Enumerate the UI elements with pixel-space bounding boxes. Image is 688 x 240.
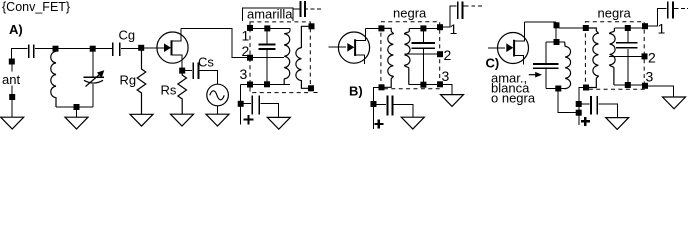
- svg-text:o negra: o negra: [491, 91, 536, 106]
- ground oscillator: [206, 114, 229, 126]
- svg-text:2: 2: [648, 50, 656, 66]
- svg-text:{Conv_FET}: {Conv_FET}: [2, 0, 70, 14]
- capacitor supply bypass A: [300, 1, 305, 17]
- wire Q3 drain to T3: [525, 22, 583, 28]
- wire C tank top rail: [546, 41, 565, 43]
- wire T2 pin2 tap: [405, 53, 438, 55]
- svg-text:A): A): [9, 22, 23, 37]
- wire T3 secondary top rail: [614, 27, 642, 29]
- svg-text:Cs: Cs: [198, 55, 214, 70]
- node T3 pin1: [642, 23, 648, 29]
- node gate junction: [138, 45, 144, 51]
- wire T3 pin1 to supply: [648, 8, 667, 26]
- capacitor T3 tuning: [616, 31, 637, 83]
- node source junction: [179, 68, 185, 74]
- inductor L1 (antenna tank coil): [51, 51, 56, 107]
- node T2 cap top junction: [420, 25, 426, 31]
- ground T3 pin3: [663, 97, 686, 109]
- capacitor supply bypass C: [668, 2, 673, 19]
- capacitor Cg: [113, 42, 139, 56]
- node T2 cap bottom junction: [420, 82, 426, 88]
- wire T1 bottom rail: [241, 83, 291, 85]
- node C electrolytic junction lower: [576, 110, 582, 116]
- transformer T3 shield box (dashed): [585, 22, 644, 89]
- svg-text:negra: negra: [393, 6, 427, 21]
- svg-text:3: 3: [442, 68, 450, 84]
- node T3 pin3: [642, 83, 648, 89]
- wire tank ground stem: [76, 107, 78, 117]
- node T1 cap top junction: [264, 25, 270, 31]
- svg-text:1: 1: [658, 21, 666, 37]
- wire A tank bottom rail: [56, 106, 93, 108]
- svg-text:ant: ant: [2, 72, 20, 87]
- node T1 cap bottom junction: [264, 81, 270, 87]
- transistor Q1 (JFET): [157, 28, 188, 68]
- svg-text:Cg: Cg: [119, 28, 136, 43]
- wire T2 primary bottom drop: [373, 87, 381, 101]
- wire T1 pin3 drop: [240, 84, 242, 124]
- node T3 cap top junction: [625, 25, 631, 31]
- svg-text:2: 2: [444, 47, 452, 63]
- wire T1 box bottom dash tail: [314, 92, 318, 94]
- svg-text:1: 1: [450, 21, 458, 37]
- ground tank: [65, 117, 88, 129]
- wire T3 primary bottom drop: [579, 88, 586, 126]
- arrow color-code pointer: [529, 72, 542, 78]
- inductor T2 secondary: [405, 28, 411, 84]
- svg-text:C): C): [486, 56, 500, 71]
- transformer T1 label box: [243, 8, 294, 21]
- node C tank top junction: [554, 39, 560, 45]
- node T3 primary bottom pin: [583, 85, 589, 91]
- node C drain junction: [554, 22, 560, 28]
- label plus A: [244, 115, 254, 125]
- transformer T2 shield box (dashed): [381, 22, 440, 89]
- node T1 secondary bottom pin: [308, 85, 314, 91]
- node A tank-C junction: [90, 46, 96, 52]
- wire T2 secondary top rail: [409, 27, 437, 29]
- node T2 pin1: [437, 24, 443, 30]
- node T3 cap bottom junction: [625, 82, 631, 88]
- label plus B: [374, 120, 383, 129]
- node T2 pin2: [437, 51, 443, 57]
- ground antenna: [1, 117, 24, 129]
- node T3 pin2: [642, 53, 648, 59]
- wire T1 supply: [293, 8, 299, 10]
- ground C electrolytic: [606, 118, 629, 130]
- capacitor CV1 (variable tuning cap): [84, 49, 105, 108]
- svg-text:B): B): [349, 84, 363, 99]
- label plus C: [581, 117, 590, 126]
- svg-text:3: 3: [240, 66, 248, 82]
- wire drain to T1 pin2: [181, 28, 247, 57]
- node B electrolytic junction: [371, 101, 377, 107]
- wire supply stub B: [463, 5, 482, 7]
- capacitor T1 tuning: [259, 31, 276, 82]
- wire T3 pin3 to ground: [648, 86, 674, 97]
- transformer T1 shield box (dashed): [250, 22, 310, 93]
- capacitor C-ant (antenna coupling): [12, 45, 54, 62]
- wire T3 pin2 tap: [609, 55, 642, 57]
- svg-text:3: 3: [646, 69, 654, 85]
- svg-text:amarilla: amarilla: [247, 7, 293, 22]
- ground T2 pin3: [441, 95, 464, 107]
- wire A top rail: [53, 48, 112, 50]
- resistor Rg: [137, 51, 146, 114]
- capacitor B electrolytic: [376, 96, 413, 117]
- node A tank ground junction: [74, 104, 80, 110]
- wire T1 top rail: [250, 28, 290, 31]
- inductor T3 primary: [586, 28, 599, 88]
- ground Rg: [130, 114, 153, 126]
- node T2 pin3: [437, 81, 443, 87]
- capacitor C electrolytic: [582, 96, 618, 118]
- ground Rs: [171, 114, 194, 126]
- node A tank-L junction: [53, 46, 59, 52]
- wire T2 pin3 to ground: [443, 84, 452, 94]
- oscillator source (sine): [207, 84, 229, 106]
- capacitor supply bypass B: [458, 1, 463, 19]
- node T1 pin2: [247, 55, 253, 61]
- inductor T3 secondary: [610, 28, 616, 85]
- wire T2 bottom rail: [409, 84, 438, 86]
- transistor Q3 (JFET): [488, 22, 529, 64]
- node C tank bottom junction: [555, 86, 561, 92]
- node T2 primary top pin: [378, 25, 384, 31]
- wire T1 pin2 tap: [250, 57, 284, 59]
- wire C tank riser: [555, 28, 557, 39]
- capacitor A electrolytic: [244, 95, 279, 117]
- capacitor Cs: [185, 63, 218, 85]
- transistor Q2 (JFET): [329, 28, 370, 64]
- resistor Rs: [178, 73, 187, 114]
- node T1 secondary top pin: [309, 23, 315, 29]
- wire antenna stub: [11, 64, 13, 117]
- inductor T1 secondary: [296, 26, 311, 88]
- node A electrolytic junction: [238, 101, 244, 107]
- node C electrolytic junction upper: [576, 101, 582, 107]
- svg-text:Rg: Rg: [120, 73, 137, 88]
- wire B electrolytic stub: [372, 107, 374, 129]
- capacitor T2 tuning: [412, 31, 436, 82]
- node T3 primary top pin: [583, 25, 589, 31]
- wire supply stub A: [306, 8, 321, 10]
- wire C tank to electrolytic: [558, 89, 576, 113]
- wire C tank bottom rail: [546, 87, 565, 89]
- wire oscillator ground stem: [217, 106, 219, 114]
- ground B electrolytic: [401, 117, 424, 129]
- node T2 primary bottom pin: [379, 84, 385, 90]
- capacitor C tank (arrow target): [533, 42, 559, 88]
- ground A electrolytic: [267, 117, 290, 129]
- node T1 pin1: [247, 25, 253, 31]
- wire T3 bottom rail: [614, 84, 642, 86]
- svg-text:negra: negra: [598, 6, 632, 21]
- wire supply stub C: [674, 7, 688, 9]
- node T1 pin3: [247, 82, 253, 88]
- wire gate: [144, 47, 164, 49]
- inductor T2 primary: [381, 28, 393, 87]
- node ant terminal upper: [9, 59, 15, 65]
- inductor L2 (C tank coil): [565, 42, 571, 88]
- wire Q2 drain to T2: [366, 27, 379, 29]
- wire T2 pin1 to supply: [443, 6, 457, 27]
- node ant terminal lower: [9, 94, 15, 100]
- svg-text:Rs: Rs: [161, 83, 177, 98]
- inductor T1 primary: [284, 31, 290, 84]
